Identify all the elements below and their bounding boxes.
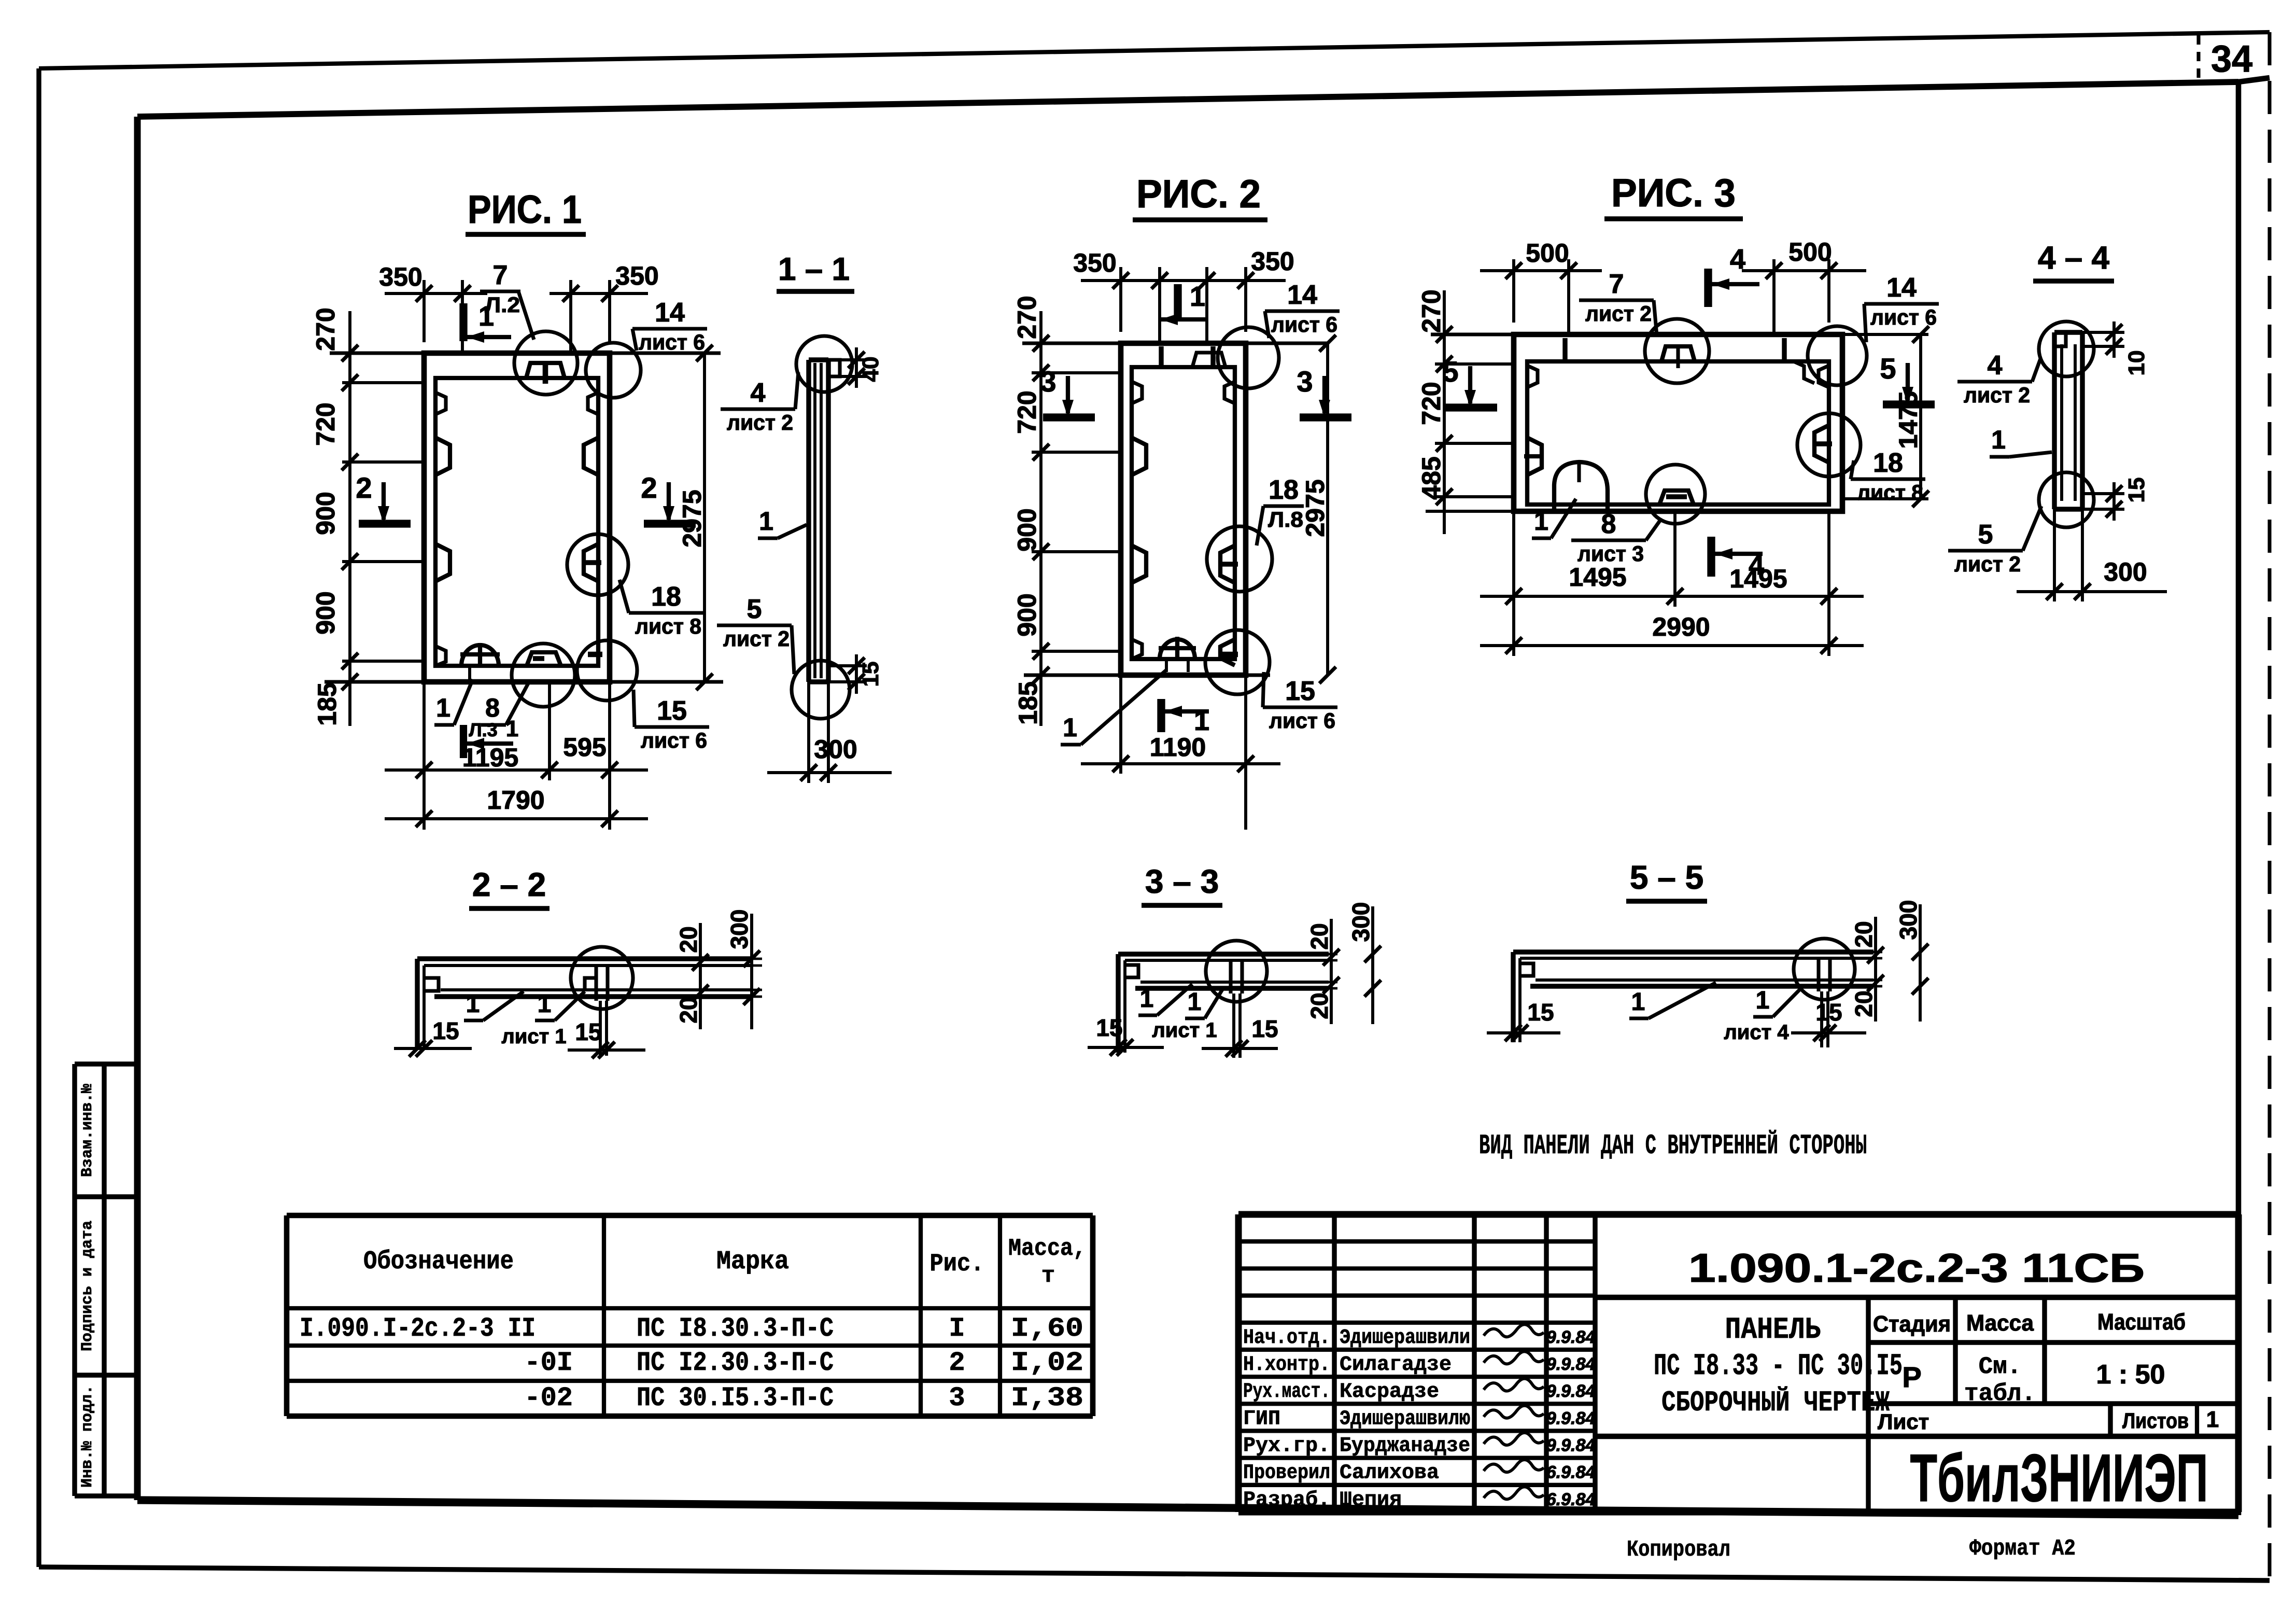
svg-text:3: 3 bbox=[1040, 365, 1056, 398]
svg-text:350: 350 bbox=[379, 262, 422, 291]
svg-text:1: 1 bbox=[538, 990, 552, 1018]
svg-text:1: 1 bbox=[436, 693, 450, 722]
svg-text:лист 4: лист 4 bbox=[1724, 1021, 1789, 1044]
svg-text:1 – 1: 1 – 1 bbox=[778, 251, 850, 287]
svg-text:-02: -02 bbox=[524, 1383, 573, 1414]
svg-text:15: 15 bbox=[1096, 1014, 1122, 1041]
svg-text:500: 500 bbox=[1788, 237, 1832, 267]
svg-text:20: 20 bbox=[1850, 921, 1877, 947]
svg-text:20: 20 bbox=[1306, 992, 1333, 1019]
svg-text:РИС. 2: РИС. 2 bbox=[1136, 172, 1261, 216]
svg-text:лист 8: лист 8 bbox=[1857, 480, 1923, 505]
svg-text:ПС I2.30.3-П-С: ПС I2.30.3-П-С bbox=[637, 1348, 834, 1378]
svg-text:1: 1 bbox=[466, 990, 480, 1018]
svg-text:лист 2: лист 2 bbox=[723, 626, 790, 651]
svg-text:270: 270 bbox=[311, 307, 340, 351]
svg-text:720: 720 bbox=[1012, 390, 1041, 433]
svg-text:4: 4 bbox=[1988, 351, 2003, 381]
svg-text:лист 1: лист 1 bbox=[1152, 1019, 1217, 1042]
svg-text:Л.3: Л.3 bbox=[469, 719, 497, 740]
svg-text:15: 15 bbox=[1815, 999, 1842, 1026]
svg-text:14: 14 bbox=[1886, 273, 1917, 303]
svg-text:1: 1 bbox=[1063, 713, 1077, 742]
svg-text:лист 6: лист 6 bbox=[639, 330, 705, 354]
svg-text:14: 14 bbox=[655, 298, 685, 328]
svg-text:15: 15 bbox=[575, 1018, 601, 1045]
svg-text:8: 8 bbox=[1601, 509, 1616, 539]
svg-text:1: 1 bbox=[1631, 988, 1645, 1016]
svg-text:Копировал: Копировал bbox=[1627, 1537, 1730, 1563]
svg-text:1190: 1190 bbox=[1150, 733, 1206, 762]
svg-text:4 – 4: 4 – 4 bbox=[2038, 240, 2109, 276]
svg-text:300: 300 bbox=[814, 735, 857, 764]
svg-text:1495: 1495 bbox=[1569, 563, 1626, 592]
svg-text:Формат А2: Формат А2 bbox=[1969, 1536, 2076, 1562]
svg-text:Лист: Лист bbox=[1878, 1409, 1929, 1434]
svg-text:лист 3: лист 3 bbox=[1577, 541, 1644, 566]
svg-text:18: 18 bbox=[651, 582, 681, 612]
svg-text:-0I: -0I bbox=[524, 1348, 573, 1378]
svg-text:Эдишерашвили: Эдишерашвили bbox=[1340, 1326, 1470, 1350]
svg-text:Л.8: Л.8 bbox=[1268, 507, 1303, 531]
svg-text:См.: См. bbox=[1979, 1353, 2022, 1380]
svg-text:Обозначение: Обозначение bbox=[363, 1247, 514, 1277]
svg-text:270: 270 bbox=[1012, 296, 1041, 339]
svg-text:Л.2: Л.2 bbox=[485, 292, 520, 317]
svg-text:185: 185 bbox=[1013, 681, 1043, 724]
svg-text:270: 270 bbox=[1417, 289, 1446, 332]
svg-text:Салихова: Салихова bbox=[1340, 1462, 1439, 1485]
svg-text:15: 15 bbox=[1285, 676, 1315, 706]
svg-text:3: 3 bbox=[1297, 365, 1313, 398]
svg-text:лист 6: лист 6 bbox=[1269, 708, 1335, 733]
svg-text:Эдишерашвилю: Эдишерашвилю bbox=[1340, 1407, 1470, 1431]
svg-text:1: 1 bbox=[759, 507, 773, 536]
svg-text:20: 20 bbox=[675, 997, 702, 1023]
svg-text:15: 15 bbox=[858, 662, 883, 687]
svg-text:1475: 1475 bbox=[1894, 391, 1923, 449]
svg-text:лист 2: лист 2 bbox=[727, 410, 793, 435]
svg-text:2975: 2975 bbox=[678, 489, 707, 547]
svg-text:40: 40 bbox=[858, 357, 883, 382]
svg-text:9.9.84: 9.9.84 bbox=[1546, 1381, 1596, 1401]
svg-text:15: 15 bbox=[1527, 999, 1554, 1026]
svg-text:5 – 5: 5 – 5 bbox=[1630, 859, 1703, 896]
svg-text:1495: 1495 bbox=[1729, 564, 1787, 593]
svg-text:5: 5 bbox=[1978, 520, 1993, 550]
svg-text:Рух.маст.: Рух.маст. bbox=[1243, 1380, 1330, 1404]
svg-text:3: 3 bbox=[949, 1383, 965, 1414]
svg-text:2: 2 bbox=[949, 1348, 965, 1378]
svg-text:1: 1 bbox=[1190, 281, 1205, 312]
svg-text:5: 5 bbox=[747, 594, 762, 624]
svg-text:18: 18 bbox=[1873, 448, 1903, 478]
svg-text:1: 1 bbox=[1140, 985, 1154, 1013]
svg-text:Стадия: Стадия bbox=[1873, 1311, 1951, 1337]
svg-text:Масса,: Масса, bbox=[1008, 1235, 1086, 1262]
svg-text:I,02: I,02 bbox=[1011, 1348, 1083, 1378]
svg-text:9.9.84: 9.9.84 bbox=[1546, 1408, 1596, 1428]
svg-text:I: I bbox=[949, 1313, 965, 1344]
svg-text:1: 1 bbox=[1534, 507, 1548, 536]
svg-text:лист 6: лист 6 bbox=[641, 728, 707, 752]
svg-text:табл.: табл. bbox=[1964, 1380, 2036, 1407]
svg-text:Нач.отд.: Нач.отд. bbox=[1243, 1326, 1330, 1350]
svg-text:185: 185 bbox=[313, 682, 342, 725]
svg-text:20: 20 bbox=[1850, 990, 1877, 1017]
svg-text:РИС. 1: РИС. 1 bbox=[468, 188, 582, 232]
svg-text:1: 1 bbox=[1188, 988, 1202, 1016]
svg-text:Разраб.: Разраб. bbox=[1243, 1489, 1330, 1512]
svg-text:ПС 30.I5.3-П-С: ПС 30.I5.3-П-С bbox=[637, 1383, 834, 1414]
svg-text:РИС. 3: РИС. 3 bbox=[1611, 171, 1736, 215]
svg-text:Касрадзе: Касрадзе bbox=[1340, 1380, 1439, 1404]
svg-text:Марка: Марка bbox=[716, 1247, 789, 1277]
svg-text:лист 2: лист 2 bbox=[1954, 552, 2021, 576]
svg-text:Взам.инв.№: Взам.инв.№ bbox=[79, 1084, 96, 1177]
svg-text:1: 1 bbox=[506, 716, 518, 741]
svg-text:1: 1 bbox=[2206, 1407, 2219, 1432]
svg-text:лист 6: лист 6 bbox=[1870, 305, 1937, 329]
svg-text:900: 900 bbox=[1012, 593, 1041, 636]
svg-text:2: 2 bbox=[641, 471, 657, 504]
svg-text:15: 15 bbox=[657, 696, 687, 726]
svg-text:14: 14 bbox=[1287, 280, 1317, 310]
svg-text:900: 900 bbox=[1012, 508, 1041, 551]
svg-text:485: 485 bbox=[1417, 456, 1446, 499]
svg-text:Масштаб: Масштаб bbox=[2097, 1309, 2186, 1335]
svg-text:Рух.гр.: Рух.гр. bbox=[1243, 1435, 1330, 1458]
svg-text:350: 350 bbox=[615, 261, 658, 290]
svg-text:720: 720 bbox=[1417, 382, 1446, 425]
svg-text:6.9.84: 6.9.84 bbox=[1546, 1463, 1596, 1482]
svg-text:т: т bbox=[1041, 1263, 1055, 1289]
svg-text:Р: Р bbox=[1902, 1361, 1921, 1393]
svg-text:Силагадзе: Силагадзе bbox=[1340, 1353, 1452, 1377]
svg-text:лист 8: лист 8 bbox=[635, 614, 701, 638]
svg-text:I.090.I-2с.2-3 II: I.090.I-2с.2-3 II bbox=[300, 1313, 536, 1344]
svg-text:ПС I8.33 - ПС 30.I5: ПС I8.33 - ПС 30.I5 bbox=[1654, 1350, 1903, 1383]
svg-text:2: 2 bbox=[356, 471, 372, 504]
svg-text:Рис.: Рис. bbox=[930, 1250, 984, 1278]
svg-text:ВИД ПАНЕЛИ ДАН С ВНУТРЕННЕЙ СТ: ВИД ПАНЕЛИ ДАН С ВНУТРЕННЕЙ СТОРОНЫ bbox=[1479, 1130, 1867, 1162]
svg-text:Шепия: Шепия bbox=[1340, 1489, 1402, 1512]
svg-text:20: 20 bbox=[1306, 923, 1333, 949]
svg-text:ПС I8.30.3-П-С: ПС I8.30.3-П-С bbox=[637, 1313, 834, 1344]
svg-text:9.9.84: 9.9.84 bbox=[1546, 1354, 1596, 1374]
svg-text:7: 7 bbox=[1609, 269, 1624, 299]
svg-text:лист 6: лист 6 bbox=[1271, 312, 1337, 337]
svg-text:900: 900 bbox=[311, 591, 340, 634]
svg-text:500: 500 bbox=[1526, 239, 1569, 268]
svg-text:15: 15 bbox=[1251, 1015, 1278, 1042]
svg-text:ГИП: ГИП bbox=[1243, 1407, 1280, 1431]
svg-text:5: 5 bbox=[1880, 352, 1896, 385]
svg-text:Подпись и дата: Подпись и дата bbox=[79, 1221, 96, 1351]
svg-text:лист 1: лист 1 bbox=[501, 1025, 566, 1048]
svg-text:Инв.№ подл.: Инв.№ подл. bbox=[79, 1385, 96, 1488]
svg-text:300: 300 bbox=[1347, 902, 1374, 942]
svg-text:15: 15 bbox=[432, 1017, 459, 1044]
svg-text:9.9.84: 9.9.84 bbox=[1546, 1327, 1596, 1347]
svg-text:ТбилЗНИИЭП: ТбилЗНИИЭП bbox=[1910, 1440, 2208, 1516]
svg-text:595: 595 bbox=[563, 733, 606, 762]
svg-text:300: 300 bbox=[1895, 900, 1922, 940]
svg-text:СБОРОЧНЫЙ ЧЕРТЕЖ: СБОРОЧНЫЙ ЧЕРТЕЖ bbox=[1661, 1386, 1890, 1419]
svg-text:720: 720 bbox=[311, 402, 340, 445]
svg-text:4: 4 bbox=[751, 378, 766, 408]
svg-text:7: 7 bbox=[493, 260, 508, 290]
svg-text:1195: 1195 bbox=[462, 743, 518, 772]
svg-text:2 – 2: 2 – 2 bbox=[472, 866, 546, 903]
svg-text:1 : 50: 1 : 50 bbox=[2096, 1360, 2165, 1390]
svg-text:Проверил: Проверил bbox=[1243, 1462, 1330, 1485]
svg-text:I,60: I,60 bbox=[1011, 1313, 1083, 1344]
svg-text:Масса: Масса bbox=[1966, 1310, 2034, 1336]
svg-text:10: 10 bbox=[2124, 351, 2149, 376]
svg-text:I,38: I,38 bbox=[1011, 1383, 1083, 1414]
svg-text:20: 20 bbox=[675, 926, 702, 953]
svg-text:9.9.84: 9.9.84 bbox=[1546, 1436, 1596, 1456]
svg-text:1.090.1-2с.2-3 11СБ: 1.090.1-2с.2-3 11СБ bbox=[1688, 1245, 2145, 1291]
svg-text:15: 15 bbox=[2124, 478, 2149, 503]
svg-text:5: 5 bbox=[1442, 355, 1458, 388]
svg-text:Бурджанадзе: Бурджанадзе bbox=[1340, 1435, 1470, 1458]
svg-text:350: 350 bbox=[1251, 247, 1294, 276]
svg-text:300: 300 bbox=[2104, 557, 2147, 586]
svg-text:1: 1 bbox=[1756, 987, 1770, 1014]
svg-text:4: 4 bbox=[1730, 244, 1745, 275]
svg-text:2975: 2975 bbox=[1301, 479, 1330, 537]
svg-text:3 – 3: 3 – 3 bbox=[1145, 863, 1219, 900]
svg-text:300: 300 bbox=[726, 910, 753, 949]
svg-text:Листов: Листов bbox=[2122, 1408, 2189, 1433]
svg-text:1: 1 bbox=[1991, 425, 2006, 454]
svg-text:6.9.84: 6.9.84 bbox=[1546, 1490, 1596, 1509]
svg-text:ПАНЕЛЬ: ПАНЕЛЬ bbox=[1725, 1313, 1821, 1347]
svg-text:лист 2: лист 2 bbox=[1585, 301, 1652, 326]
svg-text:34: 34 bbox=[2211, 38, 2252, 80]
svg-text:18: 18 bbox=[1269, 475, 1299, 505]
svg-text:2990: 2990 bbox=[1652, 612, 1710, 641]
svg-text:Н.хонтр.: Н.хонтр. bbox=[1243, 1353, 1330, 1377]
svg-text:1: 1 bbox=[1194, 705, 1209, 736]
svg-text:350: 350 bbox=[1073, 248, 1116, 277]
svg-text:8: 8 bbox=[485, 693, 500, 722]
svg-text:лист 2: лист 2 bbox=[1964, 383, 2030, 407]
svg-text:900: 900 bbox=[311, 492, 340, 535]
svg-text:1790: 1790 bbox=[487, 786, 544, 815]
